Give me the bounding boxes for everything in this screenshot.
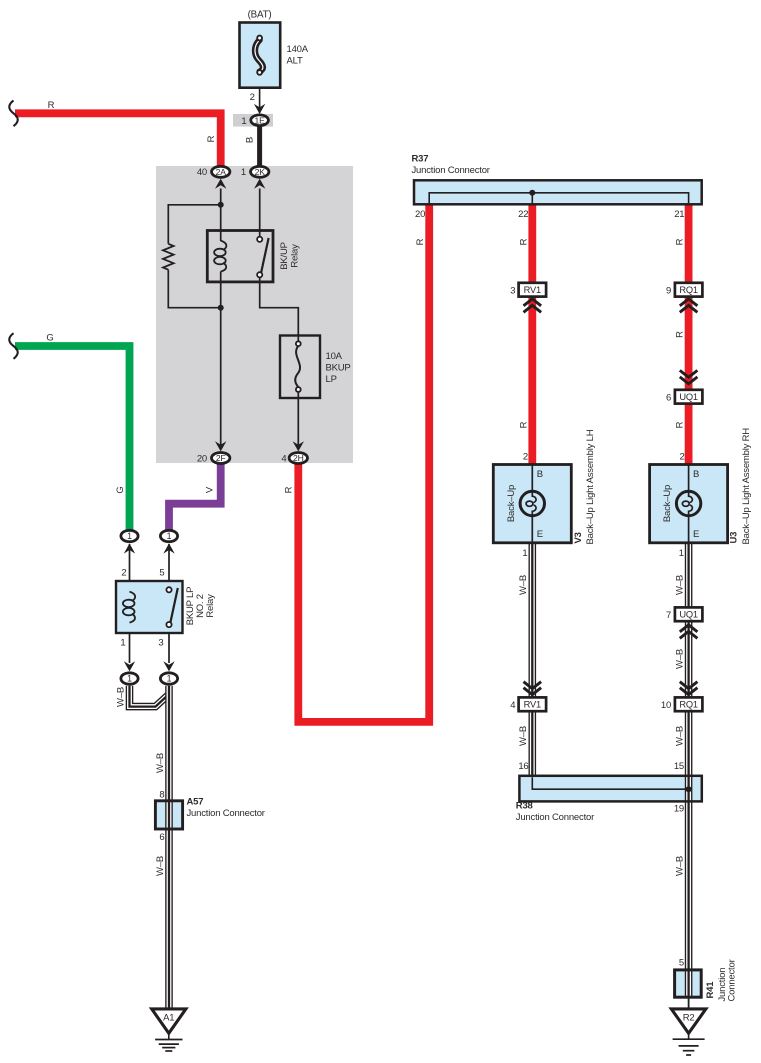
svg-text:1: 1 xyxy=(127,674,132,684)
svg-text:R37: R37 xyxy=(412,154,429,165)
U3 bulb xyxy=(676,491,700,515)
connector 2A xyxy=(212,166,230,177)
resistor branch wires xyxy=(168,205,220,308)
svg-text:2: 2 xyxy=(121,568,126,579)
connector RV1 upper xyxy=(519,283,547,297)
arrowhead into 2K xyxy=(254,179,265,189)
svg-text:(BAT): (BAT) xyxy=(248,10,272,21)
svg-text:R: R xyxy=(518,421,529,428)
svg-text:2F: 2F xyxy=(216,453,226,463)
svg-text:21: 21 xyxy=(674,209,684,220)
wire G feed xyxy=(15,346,130,530)
chevrons above RQ1 lower xyxy=(680,682,698,689)
arrowhead into 2F xyxy=(215,441,226,451)
V3 bulb xyxy=(520,491,544,515)
svg-text:19: 19 xyxy=(674,804,684,815)
svg-text:2: 2 xyxy=(523,452,528,463)
ground R2 xyxy=(671,1009,706,1033)
back-up light assembly U3 box xyxy=(650,465,728,543)
relay BK/UP switch xyxy=(261,238,268,272)
svg-text:5: 5 xyxy=(159,568,164,579)
svg-text:20: 20 xyxy=(197,453,207,464)
junction dot bottom xyxy=(218,305,224,311)
svg-text:R38: R38 xyxy=(516,801,533,812)
svg-text:BKUP: BKUP xyxy=(326,362,351,373)
svg-text:5: 5 xyxy=(679,958,684,969)
svg-text:R: R xyxy=(675,421,686,428)
connector RQ1 upper xyxy=(675,283,703,297)
svg-text:10A: 10A xyxy=(326,351,343,362)
svg-text:2: 2 xyxy=(250,92,255,103)
connector RQ1 lower xyxy=(675,697,703,711)
svg-text:8: 8 xyxy=(159,790,164,801)
junction connector A57 box border xyxy=(155,801,182,829)
svg-text:Connector: Connector xyxy=(727,959,738,1001)
svg-text:40: 40 xyxy=(197,167,207,178)
svg-text:1: 1 xyxy=(120,638,125,649)
svg-text:3: 3 xyxy=(158,638,163,649)
connector RV1 lower xyxy=(519,697,547,711)
connector 1E xyxy=(251,115,269,126)
svg-text:E: E xyxy=(537,529,543,540)
relay BKUP LP NO.2 box xyxy=(116,581,183,633)
svg-text:U3: U3 xyxy=(728,532,739,544)
svg-text:W–B: W–B xyxy=(155,856,166,876)
arrowhead below green oval xyxy=(124,543,135,553)
connector oval 1 left lower xyxy=(121,673,138,684)
svg-text:A57: A57 xyxy=(187,797,204,808)
resistor xyxy=(163,244,174,270)
svg-text:R: R xyxy=(518,238,529,245)
junction dot top xyxy=(218,202,224,208)
wire purple oval to relay pin 5 xyxy=(168,544,170,588)
svg-text:W–B: W–B xyxy=(518,726,529,746)
wire relay pin 3 down xyxy=(168,627,170,663)
svg-text:4: 4 xyxy=(510,700,515,711)
break symbol red wire xyxy=(9,101,18,127)
svg-text:Junction Connector: Junction Connector xyxy=(516,812,594,823)
svg-text:140A: 140A xyxy=(287,44,309,55)
svg-text:G: G xyxy=(46,333,53,344)
svg-text:Back–Up Light Assembly LH: Back–Up Light Assembly LH xyxy=(585,429,596,544)
V3 internal wire xyxy=(531,465,533,543)
connector oval 1 purple xyxy=(160,530,177,541)
svg-text:Back–Up: Back–Up xyxy=(662,485,673,522)
svg-text:RQ1: RQ1 xyxy=(679,700,698,710)
chevrons above UQ1 xyxy=(680,370,698,377)
svg-text:15: 15 xyxy=(674,761,684,772)
junction connector R38 bar border xyxy=(519,776,701,802)
connector UQ1 upper xyxy=(675,390,703,404)
chevrons above RV1 lower xyxy=(524,682,542,689)
wire B 1E to 2K xyxy=(257,127,262,166)
svg-text:RV1: RV1 xyxy=(524,700,541,710)
break symbol green wire xyxy=(9,333,18,359)
junction connector A57 box fill xyxy=(155,801,182,829)
arrowhead into right oval xyxy=(163,661,174,671)
svg-text:W–B: W–B xyxy=(115,687,126,707)
svg-text:R41: R41 xyxy=(705,981,716,999)
svg-text:9: 9 xyxy=(666,286,671,297)
svg-text:B: B xyxy=(245,137,256,143)
svg-text:1: 1 xyxy=(127,531,132,541)
svg-text:Relay: Relay xyxy=(290,244,301,268)
svg-text:UQ1: UQ1 xyxy=(679,392,698,402)
svg-text:4: 4 xyxy=(281,453,286,464)
gray strip behind connector 1E xyxy=(233,114,273,127)
svg-text:V: V xyxy=(205,486,216,493)
svg-text:22: 22 xyxy=(518,209,528,220)
wire R R37 pin22 to V3 xyxy=(528,204,536,465)
connector UQ1 lower xyxy=(675,607,703,621)
wire green oval to relay pin 2 xyxy=(129,544,131,592)
svg-text:1: 1 xyxy=(241,116,246,127)
svg-text:16: 16 xyxy=(518,761,528,772)
arrowhead below purple oval xyxy=(163,543,174,553)
ECU relay block background xyxy=(156,166,353,463)
relay BKUP switch xyxy=(170,588,177,623)
wire R battery feed xyxy=(15,113,221,166)
wire fuse to 2H xyxy=(297,392,299,447)
wire W-B left branch merge xyxy=(130,686,168,707)
svg-text:Back–Up Light Assembly RH: Back–Up Light Assembly RH xyxy=(741,428,752,545)
chevrons below RQ1 upper xyxy=(680,299,698,306)
chevrons below RV1 upper xyxy=(524,299,542,306)
svg-text:W–B: W–B xyxy=(155,753,166,773)
wire 2K to relay switch xyxy=(259,189,261,237)
arrowhead into left oval xyxy=(124,661,135,671)
svg-text:RV1: RV1 xyxy=(524,285,541,295)
relay BK/UP box xyxy=(207,231,273,282)
svg-text:Junction Connector: Junction Connector xyxy=(412,165,490,176)
R37 internal bus xyxy=(429,193,688,203)
wire W-B U3 to R41 xyxy=(685,543,693,997)
svg-text:E: E xyxy=(693,529,699,540)
svg-text:R: R xyxy=(283,486,294,493)
svg-text:RQ1: RQ1 xyxy=(679,285,698,295)
connector oval 1 green xyxy=(121,530,138,541)
connector oval 1 right lower xyxy=(160,673,177,684)
svg-text:6: 6 xyxy=(159,832,164,843)
svg-text:6: 6 xyxy=(666,393,671,404)
connector 2K xyxy=(251,166,269,177)
fusible link symbol xyxy=(255,40,263,72)
svg-text:ALT: ALT xyxy=(287,55,304,66)
wire R 2H to R37 pin20 xyxy=(298,204,429,722)
wire W-B relay to ground A1 xyxy=(165,686,173,1009)
R38 internal bus xyxy=(532,777,688,789)
U3 internal wire xyxy=(688,465,690,543)
svg-text:W–B: W–B xyxy=(674,726,685,746)
svg-text:A1: A1 xyxy=(163,1012,174,1023)
wire R41 to ground R2 xyxy=(688,997,690,1010)
svg-text:10: 10 xyxy=(661,700,671,711)
junction connector R37 bar xyxy=(414,180,702,204)
arrowhead into 2A xyxy=(215,179,226,189)
svg-text:G: G xyxy=(115,486,126,493)
svg-text:2H: 2H xyxy=(293,453,304,463)
svg-text:3: 3 xyxy=(510,286,515,297)
svg-text:W–B: W–B xyxy=(674,575,685,595)
fuse 10A BKUP LP box xyxy=(280,336,320,399)
wire V 2F to relay xyxy=(169,465,221,531)
svg-text:1: 1 xyxy=(522,548,527,559)
svg-text:V3: V3 xyxy=(573,532,584,543)
svg-text:R2: R2 xyxy=(683,1012,695,1023)
svg-text:W–B: W–B xyxy=(674,856,685,876)
svg-text:BK/UP: BK/UP xyxy=(279,242,290,270)
relay BKUP coil xyxy=(130,592,136,601)
svg-text:1: 1 xyxy=(679,548,684,559)
svg-text:2A: 2A xyxy=(216,167,227,177)
svg-text:Junction Connector: Junction Connector xyxy=(187,808,265,819)
svg-text:20: 20 xyxy=(415,209,425,220)
wire relay coil to 2F xyxy=(220,272,222,448)
svg-text:R: R xyxy=(415,238,426,245)
arrowhead into 2H xyxy=(293,441,304,451)
svg-text:R: R xyxy=(675,331,686,338)
fusible link 140A ALT box xyxy=(240,23,281,88)
relay BK/UP coil xyxy=(221,241,227,250)
svg-text:R: R xyxy=(675,238,686,245)
svg-text:1: 1 xyxy=(241,167,246,178)
svg-text:UQ1: UQ1 xyxy=(679,610,698,620)
svg-text:1: 1 xyxy=(167,531,172,541)
svg-text:B: B xyxy=(537,469,543,480)
fuse 10A symbol xyxy=(295,346,300,387)
wire 2A to relay coil xyxy=(220,189,222,242)
svg-text:LP: LP xyxy=(326,374,337,385)
svg-text:Back–Up: Back–Up xyxy=(506,485,517,522)
chevrons below UQ1 lower xyxy=(680,625,698,632)
svg-text:W–B: W–B xyxy=(518,575,529,595)
ground A1 xyxy=(152,1009,186,1033)
svg-text:7: 7 xyxy=(666,610,671,621)
svg-text:1E: 1E xyxy=(255,115,266,125)
svg-text:1: 1 xyxy=(167,674,172,684)
wire relay switch to fuse xyxy=(260,277,299,341)
connector 2H xyxy=(289,453,307,464)
wire W-B V3 to R38 pin16 xyxy=(528,543,536,776)
svg-text:2K: 2K xyxy=(255,167,266,177)
svg-text:R: R xyxy=(206,135,217,142)
arrowhead into 1E xyxy=(254,104,265,114)
junction connector R38 bar fill xyxy=(519,776,701,802)
junction connector R41 box fill xyxy=(675,970,702,997)
wire fusible link to 1E xyxy=(259,75,261,113)
back-up light assembly V3 box xyxy=(493,465,571,543)
svg-text:R: R xyxy=(48,100,55,111)
junction connector R41 box border xyxy=(675,970,702,997)
svg-text:Relay: Relay xyxy=(205,594,216,618)
wire R R37 pin21 to U3 xyxy=(685,204,693,465)
wire relay pin 1 down xyxy=(129,622,131,663)
svg-text:B: B xyxy=(693,469,699,480)
connector 2F xyxy=(212,453,230,464)
svg-text:W–B: W–B xyxy=(674,649,685,669)
svg-text:2: 2 xyxy=(680,452,685,463)
